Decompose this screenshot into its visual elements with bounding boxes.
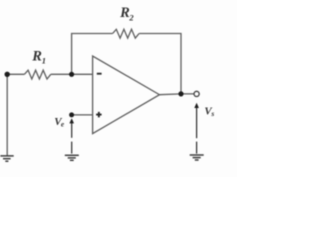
svg-text:e: e bbox=[61, 120, 65, 129]
svg-text:1: 1 bbox=[42, 55, 46, 65]
svg-text:s: s bbox=[210, 109, 214, 118]
svg-text:2: 2 bbox=[128, 12, 134, 22]
svg-text:R: R bbox=[31, 48, 42, 64]
